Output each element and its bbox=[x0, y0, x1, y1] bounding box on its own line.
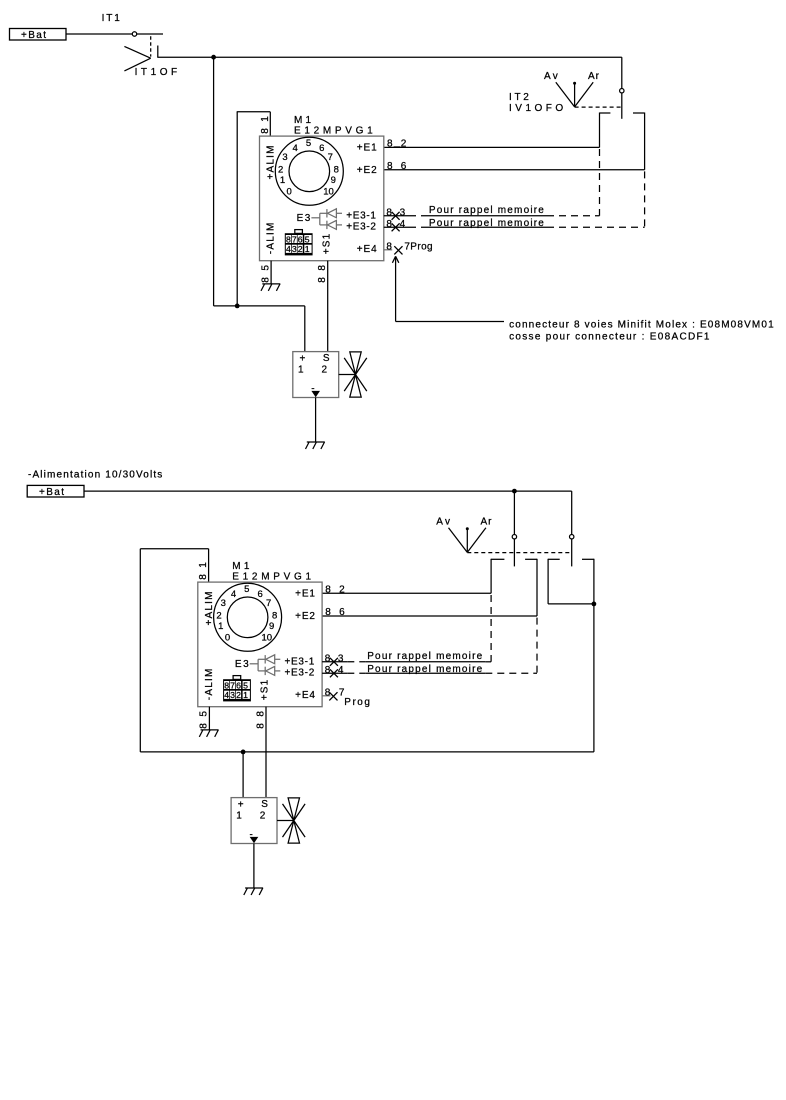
dashed memory wire pin 3 bbox=[347, 661, 366, 663]
svg-text:8: 8 bbox=[260, 128, 271, 134]
svg-text:Pour rappel memoire: Pour rappel memoire bbox=[429, 205, 545, 216]
svg-text:7: 7 bbox=[339, 687, 345, 698]
svg-text:+Bat: +Bat bbox=[39, 487, 65, 498]
pin 7 stub wire bbox=[322, 695, 330, 697]
svg-text:+: + bbox=[300, 354, 306, 365]
svg-text:8: 8 bbox=[386, 207, 392, 218]
wire +Bat rail (circuit 2 top) bbox=[84, 490, 572, 492]
wire motor + feed down (circuit 2) bbox=[242, 752, 244, 798]
pin 3 labels 8 3 bbox=[386, 207, 405, 218]
pin 3 stub wire bbox=[384, 215, 409, 217]
svg-text:2: 2 bbox=[260, 810, 266, 821]
svg-text:4: 4 bbox=[224, 690, 229, 700]
svg-text:+S1: +S1 bbox=[260, 679, 271, 701]
svg-text:+E2: +E2 bbox=[357, 165, 378, 176]
propeller symbol bbox=[283, 798, 306, 843]
contact bracket 2 (circuit 2) bbox=[548, 559, 594, 752]
svg-text:8: 8 bbox=[260, 277, 271, 283]
svg-text:E12MPVG1: E12MPVG1 bbox=[232, 572, 314, 583]
switch IT1 blade wire bbox=[137, 33, 163, 35]
dashed memory wire tail pin 4 bbox=[547, 226, 645, 228]
wire +E1 (8 2) to switch (circuit 2) bbox=[322, 592, 491, 594]
svg-text:3: 3 bbox=[292, 244, 297, 254]
node junction on rail (pole 1) bbox=[512, 489, 517, 494]
svg-text:8: 8 bbox=[387, 161, 393, 172]
svg-text:5: 5 bbox=[260, 265, 271, 271]
svg-text:Pour rappel memoire: Pour rappel memoire bbox=[367, 651, 483, 662]
dashed memory wire vertical (pin 3 side) bbox=[599, 149, 601, 216]
dial digits 0-10 bbox=[216, 584, 277, 643]
wire module pin 8 (+S1) to motor S bbox=[327, 261, 329, 352]
wire pole 2 down bbox=[571, 491, 573, 534]
wire horizontal to pin 8-1 bbox=[237, 111, 271, 113]
switch IT2 lever symbol bbox=[556, 82, 593, 107]
wire pole 1 down bbox=[513, 491, 515, 534]
svg-text:5: 5 bbox=[199, 711, 210, 717]
svg-text:3: 3 bbox=[221, 598, 226, 609]
svg-text:IV1OFO: IV1OFO bbox=[509, 103, 567, 114]
svg-text:8: 8 bbox=[199, 723, 210, 729]
svg-text:Av: Av bbox=[544, 71, 560, 82]
svg-text:10: 10 bbox=[323, 186, 334, 197]
svg-text:6: 6 bbox=[257, 589, 262, 600]
propeller shaft wire bbox=[339, 374, 356, 376]
svg-text:1: 1 bbox=[298, 364, 304, 375]
svg-text:7: 7 bbox=[266, 598, 271, 609]
svg-text:5: 5 bbox=[305, 234, 310, 244]
svg-text:9: 9 bbox=[269, 621, 274, 632]
svg-text:7: 7 bbox=[404, 241, 410, 252]
svg-text:8: 8 bbox=[386, 219, 392, 230]
svg-text:8: 8 bbox=[325, 585, 331, 596]
svg-text:M1: M1 bbox=[294, 115, 314, 126]
diode D2 (to +E3-2) bbox=[327, 220, 342, 229]
motor minus terminal triangle bbox=[311, 391, 320, 397]
rotary dial outer circle bbox=[275, 137, 343, 205]
svg-text:8: 8 bbox=[387, 139, 393, 150]
svg-text:4: 4 bbox=[231, 589, 236, 600]
svg-text:+E1: +E1 bbox=[295, 588, 316, 599]
svg-text:8: 8 bbox=[198, 574, 209, 580]
rotary dial inner circle bbox=[289, 151, 330, 192]
svg-text:2: 2 bbox=[401, 139, 407, 150]
underline wire pin 4 bbox=[428, 226, 548, 228]
diode pair E3 wiring bbox=[250, 659, 265, 671]
arrow to connector note bbox=[392, 256, 504, 321]
svg-text:7: 7 bbox=[328, 152, 333, 163]
switch IT1 output terminal wire bbox=[157, 46, 159, 58]
ground (chassis) below motor bbox=[306, 442, 325, 449]
wire +E1 (8 2) to switch bbox=[384, 146, 600, 148]
wire +E2 (8 6) to switch bbox=[384, 169, 645, 171]
wire to reversing switch pole (circuit 1) bbox=[621, 57, 623, 88]
pin 4 labels 8 4 bbox=[325, 665, 344, 676]
motor box bbox=[231, 798, 277, 844]
svg-text:8: 8 bbox=[325, 607, 331, 618]
svg-text:3: 3 bbox=[230, 690, 235, 700]
svg-text:+: + bbox=[238, 800, 244, 811]
wire +E2 (8 6) to switch (circuit 2) bbox=[322, 615, 537, 617]
svg-text:IT2: IT2 bbox=[509, 92, 532, 103]
diode pair E3 wiring bbox=[311, 213, 326, 225]
svg-text:5: 5 bbox=[244, 584, 249, 595]
connector block (8-way Minifit) bbox=[223, 676, 251, 702]
switch IT1 fixed contact (open circle) bbox=[132, 32, 136, 36]
module M1 box (circuit 2) bbox=[198, 582, 322, 707]
ground (chassis) below motor bbox=[244, 888, 263, 895]
underline wire pin 3 bbox=[366, 661, 486, 663]
svg-text:1: 1 bbox=[198, 562, 209, 568]
svg-text:1: 1 bbox=[243, 690, 248, 700]
wire motor + feed down bbox=[304, 306, 306, 352]
battery +Bat (circuit 2) bbox=[27, 485, 84, 498]
svg-text:+E3-1: +E3-1 bbox=[346, 210, 376, 221]
pin 4 cut mark X bbox=[330, 669, 338, 677]
dashed memory wire pin 3 bbox=[409, 215, 428, 217]
svg-text:8: 8 bbox=[325, 665, 331, 676]
node junction bottom feed bbox=[235, 304, 240, 309]
wire pin 8-1 into module bbox=[269, 112, 271, 136]
svg-text:8: 8 bbox=[256, 711, 267, 717]
pin 7 labels 8 7 bbox=[386, 241, 410, 252]
pin row 8 2 labels bbox=[325, 585, 345, 596]
svg-text:Prog: Prog bbox=[410, 241, 433, 252]
battery +Bat (circuit 1) bbox=[10, 29, 67, 41]
svg-text:0: 0 bbox=[287, 186, 292, 197]
pin 7 labels 8 7 bbox=[325, 687, 345, 698]
svg-text:0: 0 bbox=[225, 632, 230, 643]
svg-text:2: 2 bbox=[236, 690, 241, 700]
svg-text:Prog: Prog bbox=[344, 697, 371, 708]
pin row 8 6 labels bbox=[325, 607, 345, 618]
motor terminal labels bbox=[298, 353, 330, 394]
switch IV1OFO lever symbol (circuit 2) bbox=[449, 527, 486, 552]
svg-text:2: 2 bbox=[322, 364, 328, 375]
rotary dial inner circle bbox=[227, 597, 268, 638]
svg-text:6: 6 bbox=[319, 143, 324, 154]
pin 7 stub wire bbox=[384, 249, 392, 251]
dashed memory wire vertical pin 3 (circuit 2) bbox=[490, 595, 492, 662]
pin 3 stub wire bbox=[322, 661, 347, 663]
wire bottom feed to motor bbox=[214, 305, 305, 307]
svg-text:8: 8 bbox=[224, 680, 229, 690]
ground (chassis) below module bbox=[261, 284, 280, 291]
propeller shaft wire bbox=[277, 820, 294, 822]
svg-text:6: 6 bbox=[401, 161, 407, 172]
svg-text:3: 3 bbox=[282, 152, 287, 163]
pin 7 cut mark X bbox=[394, 246, 402, 254]
wire motor minus to ground bbox=[315, 398, 317, 443]
underline wire pin 3 bbox=[428, 215, 548, 217]
svg-text:Av: Av bbox=[436, 517, 452, 528]
switch IT2 pole contact (open circle) bbox=[620, 89, 624, 93]
svg-text:+E4: +E4 bbox=[295, 690, 316, 701]
contact bracket 1 (circuit 2) bbox=[491, 559, 537, 616]
svg-text:IT1: IT1 bbox=[102, 13, 122, 24]
pin 4 stub wire bbox=[322, 672, 347, 674]
svg-text:Pour rappel memoire: Pour rappel memoire bbox=[429, 218, 545, 229]
svg-text:4: 4 bbox=[293, 143, 298, 154]
wire up to module pin 1 bbox=[236, 112, 238, 306]
svg-text:Ar: Ar bbox=[588, 71, 600, 82]
svg-text:1: 1 bbox=[236, 810, 242, 821]
motor terminal labels bbox=[236, 799, 268, 840]
svg-text:1: 1 bbox=[305, 244, 310, 254]
pin 4 labels 8 4 bbox=[386, 219, 405, 230]
wire bottom rail (circuit 2) bbox=[140, 751, 594, 753]
svg-text:5: 5 bbox=[306, 138, 311, 149]
diode D2 (to +E3-2) bbox=[265, 666, 280, 675]
svg-text:S: S bbox=[323, 353, 330, 364]
svg-text:+E3-2: +E3-2 bbox=[346, 222, 376, 233]
wire left feed vertical (circuit 2) bbox=[139, 549, 141, 752]
svg-text:1: 1 bbox=[260, 116, 271, 122]
svg-text:3: 3 bbox=[400, 207, 406, 218]
wire +Bat to IT1 contact bbox=[66, 33, 132, 35]
dial digits 0-10 bbox=[278, 138, 339, 197]
svg-text:+E1: +E1 bbox=[357, 142, 378, 153]
pole 1 wire lower bbox=[513, 539, 515, 567]
svg-text:Ar: Ar bbox=[481, 517, 493, 528]
module M1 box (circuit 1) bbox=[260, 136, 384, 261]
svg-text:E12MPVG1: E12MPVG1 bbox=[294, 126, 376, 137]
pin 7 cut mark X bbox=[329, 692, 337, 700]
dashed memory wire tail pin 4 (circuit 2) bbox=[485, 672, 537, 674]
pin 3 cut mark X bbox=[330, 658, 338, 666]
svg-text:E3: E3 bbox=[235, 659, 250, 670]
switch IT2 pole wire bbox=[621, 93, 623, 119]
node junction motor feed (circuit 2) bbox=[241, 750, 246, 755]
pin row 8 6 labels bbox=[387, 161, 407, 172]
label 8_2 underscore mark bbox=[394, 146, 401, 148]
pin 4 stub wire bbox=[384, 226, 409, 228]
wire motor minus to ground bbox=[253, 844, 255, 889]
dashed memory wire pin 4 bbox=[409, 226, 428, 228]
diode D1 (to +E3-1) bbox=[265, 655, 280, 664]
switch IT1 linkage (dashed) bbox=[150, 36, 152, 56]
svg-text:+E3-2: +E3-2 bbox=[285, 668, 315, 679]
svg-text:4: 4 bbox=[400, 219, 406, 230]
svg-text:cosse pour connecteur : E08ACD: cosse pour connecteur : E08ACDF1 bbox=[509, 332, 711, 343]
wire +Bat rail (circuit 1 top) bbox=[157, 56, 622, 58]
svg-text:-ALIM: -ALIM bbox=[266, 222, 277, 255]
dashed memory wire tail pin 3 bbox=[547, 215, 600, 217]
svg-text:+S1: +S1 bbox=[321, 233, 332, 255]
pole 2 wire lower bbox=[571, 539, 573, 567]
node junction bracket 2 bbox=[592, 602, 597, 607]
svg-text:8: 8 bbox=[325, 687, 331, 698]
svg-text:+E2: +E2 bbox=[295, 611, 316, 622]
svg-text:6: 6 bbox=[236, 680, 241, 690]
switch IT1 actuator chevron bbox=[124, 46, 150, 71]
rotary dial outer circle bbox=[214, 583, 282, 651]
svg-text:8: 8 bbox=[317, 277, 328, 283]
dashed memory wire vertical pin 4 (circuit 2) bbox=[536, 618, 538, 674]
pole 2 contact (open circle) bbox=[570, 535, 574, 539]
svg-text:9: 9 bbox=[331, 175, 336, 186]
underline wire pin 4 bbox=[366, 672, 486, 674]
svg-text:M1: M1 bbox=[232, 561, 252, 572]
svg-text:-Alimentation 10/30Volts: -Alimentation 10/30Volts bbox=[28, 469, 163, 480]
svg-text:IT1OF: IT1OF bbox=[135, 67, 181, 78]
svg-text:8: 8 bbox=[386, 241, 392, 252]
motor box bbox=[293, 352, 339, 398]
svg-text:4: 4 bbox=[286, 244, 291, 254]
svg-text:1: 1 bbox=[280, 175, 285, 186]
svg-text:7: 7 bbox=[230, 680, 235, 690]
diode D1 (to +E3-1) bbox=[327, 209, 342, 218]
svg-text:2: 2 bbox=[298, 244, 303, 254]
svg-text:8: 8 bbox=[325, 653, 331, 664]
svg-text:E3: E3 bbox=[297, 213, 312, 224]
wire module pin 8 (+S1) to motor S bbox=[265, 707, 267, 798]
switch IT2 linkage (dashed) bbox=[575, 106, 622, 108]
connector block (8-way Minifit) bbox=[285, 230, 313, 256]
ground (chassis) below module bbox=[199, 730, 218, 737]
svg-text:6: 6 bbox=[298, 234, 303, 244]
pin row 8 2 labels bbox=[387, 139, 407, 150]
pin 3 cut mark X bbox=[392, 212, 400, 220]
pole 1 contact (open circle) bbox=[512, 535, 516, 539]
svg-text:7: 7 bbox=[292, 234, 297, 244]
wire into module pin 1 (circuit 2) bbox=[208, 549, 210, 582]
dashed memory wire pin 4 bbox=[347, 672, 366, 674]
pin 3 labels 8 3 bbox=[325, 653, 344, 664]
svg-text:2: 2 bbox=[339, 585, 345, 596]
dashed memory wire vertical (pin 4 side) bbox=[644, 171, 646, 227]
pin 4 cut mark X bbox=[392, 223, 400, 231]
propeller symbol bbox=[344, 352, 367, 397]
wire module pin 5 (-ALIM) to ground bbox=[208, 707, 210, 730]
svg-text:connecteur 8 voies Minifit Mol: connecteur 8 voies Minifit Molex : E08M0… bbox=[509, 319, 775, 330]
svg-text:10: 10 bbox=[262, 632, 273, 643]
svg-text:+E3-1: +E3-1 bbox=[285, 656, 315, 667]
svg-text:+Bat: +Bat bbox=[21, 30, 47, 41]
svg-text:3: 3 bbox=[338, 653, 344, 664]
wire down from junction bbox=[213, 57, 215, 306]
switch IT2 contact bracket bbox=[600, 113, 645, 170]
svg-text:S: S bbox=[261, 799, 268, 810]
svg-text:8: 8 bbox=[256, 723, 267, 729]
node junction on +Bat rail bbox=[211, 55, 216, 60]
motor minus terminal triangle bbox=[250, 837, 259, 843]
svg-text:8: 8 bbox=[317, 265, 328, 271]
wire module pin 5 (-ALIM) to ground bbox=[270, 261, 272, 284]
svg-text:6: 6 bbox=[339, 607, 345, 618]
dashed memory wire tail pin 3 (circuit 2) bbox=[485, 661, 491, 663]
svg-text:5: 5 bbox=[243, 680, 248, 690]
svg-text:1: 1 bbox=[218, 621, 223, 632]
svg-text:Pour rappel memoire: Pour rappel memoire bbox=[367, 664, 483, 675]
svg-text:8: 8 bbox=[286, 234, 291, 244]
svg-text:4: 4 bbox=[338, 665, 344, 676]
wire left feed top horizontal bbox=[140, 548, 208, 550]
svg-text:-ALIM: -ALIM bbox=[204, 668, 215, 701]
switch linkage (dashed, circuit 2) bbox=[467, 552, 571, 554]
svg-text:+E4: +E4 bbox=[357, 244, 378, 255]
